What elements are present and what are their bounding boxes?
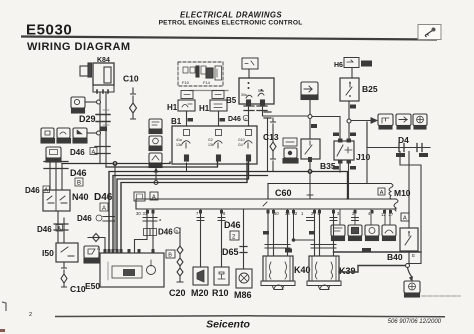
svg-text:B40: B40 xyxy=(387,252,403,262)
svg-text:J10: J10 xyxy=(356,152,370,162)
wire H6 to B25 xyxy=(351,68,353,78)
svg-text:A: A xyxy=(152,195,156,201)
svg-text:G2: G2 xyxy=(208,138,213,142)
icon box s2 xyxy=(348,225,362,241)
icon boxes near C13 xyxy=(283,138,298,163)
junction dot k xyxy=(292,238,296,242)
bus A xyxy=(62,162,170,164)
svg-text:C20: C20 xyxy=(169,288,186,298)
wire B25 down xyxy=(348,101,350,121)
icon box beside I50 xyxy=(84,246,99,263)
svg-text:D46: D46 xyxy=(25,186,40,195)
footer xyxy=(0,302,445,332)
svg-text:30a: 30a xyxy=(241,93,247,97)
header xyxy=(21,11,441,54)
wire from arrow bus down xyxy=(366,122,368,148)
connector C20 xyxy=(169,228,186,298)
connector bars over N40 wires xyxy=(44,162,68,169)
svg-text:D46: D46 xyxy=(37,225,52,234)
svg-text:2: 2 xyxy=(232,234,236,240)
connector ticks D46c xyxy=(264,112,271,118)
wire B5 pin30 down xyxy=(248,105,250,126)
svg-text:I50: I50 xyxy=(42,248,54,258)
fuse box (dashed) xyxy=(178,62,228,91)
socket boxes on wires xyxy=(144,229,151,236)
wire J10 pin right down to strip xyxy=(348,163,350,199)
diamond wire to E50 pin1 xyxy=(88,238,105,253)
key switch B5 xyxy=(239,78,274,105)
pin squares under strip xyxy=(146,210,392,214)
wire K84 pin2 down to bus xyxy=(105,93,107,167)
bus D xyxy=(113,176,268,253)
wire box to B5 xyxy=(248,69,250,78)
wire D46c down to bus xyxy=(267,118,269,172)
node junction 2 xyxy=(97,131,101,135)
svg-text:E: E xyxy=(412,253,415,258)
wire J10 pin left down xyxy=(339,163,341,172)
connector bars below B5 xyxy=(244,106,267,111)
small box above B5 xyxy=(242,58,258,69)
svg-text:41a: 41a xyxy=(176,138,182,142)
label D65 xyxy=(222,247,247,258)
horn M20 xyxy=(191,267,209,298)
bus C xyxy=(109,172,348,253)
icon box s3 xyxy=(365,225,379,241)
connector C10 xyxy=(123,74,139,120)
svg-text:13b: 13b xyxy=(208,143,214,147)
connector C10 below I50 xyxy=(61,262,86,294)
label D46 A mid xyxy=(94,192,113,212)
svg-text:F14: F14 xyxy=(203,80,211,85)
wire to M86 xyxy=(243,209,245,269)
svg-text:2: 2 xyxy=(29,312,32,318)
node on bus A xyxy=(113,162,117,166)
B1 pin1 stub xyxy=(186,163,188,172)
coil K39 xyxy=(307,256,356,290)
wire strip pins to E50 right pins xyxy=(135,209,154,252)
E50 top pins xyxy=(97,246,155,253)
svg-text:506 907/06 12/2000: 506 907/06 12/2000 xyxy=(388,319,442,325)
coil K40 xyxy=(261,256,311,290)
svg-text:M20: M20 xyxy=(191,288,209,298)
ignition switch K84 xyxy=(80,57,114,93)
pin tag on K40 left xyxy=(263,231,269,235)
loom strip xyxy=(136,199,398,211)
pin tag Me xyxy=(285,249,292,253)
wire from sensor to node xyxy=(85,101,97,103)
wire icon to junction xyxy=(309,100,311,139)
connector H1 (left) xyxy=(167,91,195,113)
wire B35 bus to strip xyxy=(309,172,311,200)
svg-text:7: 7 xyxy=(196,211,199,216)
svg-text:D46: D46 xyxy=(158,228,173,237)
wire frame right: down from D4 xyxy=(400,152,421,264)
svg-text:D46: D46 xyxy=(224,220,241,230)
wire to R10 xyxy=(221,209,223,267)
node on bus F xyxy=(154,181,158,185)
svg-text:1: 1 xyxy=(301,211,304,216)
icon box: injector arrow xyxy=(73,128,87,143)
connector bars on K84 wires xyxy=(95,147,110,154)
connector ticks below strip xyxy=(197,218,359,221)
label D46 o with connector over E50 bundle xyxy=(77,214,114,223)
icon box row: fuel cutoff xyxy=(41,128,55,143)
svg-text:Seicento: Seicento xyxy=(206,319,250,331)
wires strip to icons xyxy=(340,209,390,225)
svg-text:ELECTRICAL DRAWINGS: ELECTRICAL DRAWINGS xyxy=(180,11,282,20)
svg-text:6: 6 xyxy=(223,211,226,216)
wire N40 to I50 xyxy=(58,211,64,243)
svg-text:B: B xyxy=(168,253,172,259)
strip pin numbers xyxy=(136,211,394,217)
svg-text:K40: K40 xyxy=(294,265,311,275)
svg-text:G4: G4 xyxy=(238,143,243,147)
svg-text:30: 30 xyxy=(136,211,141,216)
wire junction to J10 pin xyxy=(348,123,350,139)
svg-text:B25: B25 xyxy=(362,84,378,94)
svg-text:N40: N40 xyxy=(72,192,89,202)
J10 pin tags xyxy=(333,133,339,137)
icon box s4 xyxy=(382,225,396,241)
switch B40 xyxy=(387,228,418,262)
junction dot B40 xyxy=(406,264,410,268)
svg-text:13a: 13a xyxy=(176,143,182,147)
svg-text:K39: K39 xyxy=(339,266,356,276)
wire B40 to junction xyxy=(408,251,410,264)
svg-text:F10: F10 xyxy=(182,80,190,85)
svg-text:C10: C10 xyxy=(123,74,139,84)
wire B5 pin50 right xyxy=(263,105,311,116)
arrow to icon boxes xyxy=(351,120,371,122)
wire B35 down to bus xyxy=(309,159,311,172)
svg-text:A: A xyxy=(380,190,384,196)
svg-text:R10: R10 xyxy=(212,288,229,298)
switch I50 xyxy=(42,243,78,262)
svg-text:PETROL ENGINES ELECTRONIC CONT: PETROL ENGINES ELECTRONIC CONTROL xyxy=(159,20,303,27)
motor M86 xyxy=(234,269,252,300)
wire from icon stack to bus with up arrow xyxy=(155,168,157,182)
icon box t2 xyxy=(396,114,411,129)
wire junction right to J10 pin xyxy=(312,117,340,140)
bus A drop to E50 xyxy=(114,164,116,250)
node junction B25 xyxy=(347,119,351,123)
svg-text:D46: D46 xyxy=(77,214,92,223)
wire to B40 xyxy=(408,152,410,229)
ground icon box xyxy=(404,281,460,297)
svg-text:G10: G10 xyxy=(238,138,245,142)
svg-text:D46: D46 xyxy=(70,168,87,178)
label D46 c xyxy=(228,115,249,123)
icon box above B35 xyxy=(301,82,318,100)
node junction on K84 wire xyxy=(97,100,101,104)
svg-text:M10: M10 xyxy=(394,188,411,198)
bus B xyxy=(106,162,218,167)
sensor icon box (lambda) xyxy=(71,97,85,113)
svg-text:50a: 50a xyxy=(258,89,264,93)
vertical wire J10 area down xyxy=(366,122,368,183)
pin label 1a xyxy=(311,124,317,128)
brake switch B25 xyxy=(340,78,378,101)
wire to M20 xyxy=(200,209,202,267)
label D46 B xyxy=(70,168,87,187)
bus F xyxy=(121,163,247,252)
node junction B35 xyxy=(308,115,312,119)
connector bars above I50 xyxy=(54,224,68,230)
wire H1a to B1 xyxy=(186,111,188,126)
C60 M10 harness box xyxy=(268,184,411,200)
connector C13 xyxy=(263,118,279,172)
relay N40 xyxy=(43,190,89,211)
connector H1 (right) xyxy=(199,91,227,114)
svg-text:A: A xyxy=(97,246,100,251)
arrow to ground icon xyxy=(408,268,412,277)
node on bus C xyxy=(308,170,312,174)
svg-text:B: B xyxy=(77,181,81,187)
connector bars K39 bundle xyxy=(311,245,336,249)
svg-text:B1: B1 xyxy=(171,117,182,126)
svg-text:A: A xyxy=(92,150,96,156)
svg-text:D46: D46 xyxy=(70,148,85,157)
wire K84 pin1 down to bus xyxy=(99,93,101,164)
boxed B at E50 right xyxy=(166,250,175,258)
wire icon row to node xyxy=(87,132,97,134)
svg-text:WIRING DIAGRAM: WIRING DIAGRAM xyxy=(27,41,131,53)
pin tag on K84 wire xyxy=(101,127,107,131)
svg-text:E50: E50 xyxy=(85,281,100,291)
svg-text:H1: H1 xyxy=(199,104,210,113)
svg-text:M86: M86 xyxy=(234,290,252,300)
svg-text:a: a xyxy=(159,217,162,222)
relay J10 xyxy=(334,139,370,164)
label D46 at left edge xyxy=(25,186,50,195)
connector D4 xyxy=(367,135,430,157)
svg-text:D65: D65 xyxy=(222,247,239,257)
icon box: rpm xyxy=(57,128,71,143)
svg-text:D46: D46 xyxy=(94,192,113,203)
svg-text:A: A xyxy=(102,206,106,212)
wire H1b to B1 xyxy=(218,111,220,126)
switch B35 xyxy=(301,139,336,171)
connector H6 xyxy=(334,58,372,70)
lighter R10 xyxy=(212,267,229,298)
label D46 2 xyxy=(224,220,241,240)
svg-text:H1: H1 xyxy=(167,103,178,112)
connector bars K40 bundle xyxy=(265,245,290,249)
connector bars on strip wires xyxy=(143,218,157,222)
icon box s1 xyxy=(331,225,345,241)
svg-text:C13: C13 xyxy=(263,132,279,142)
wires into K40 xyxy=(268,209,288,256)
stacked icon boxes left of B1 xyxy=(149,119,162,168)
wire K39 body right xyxy=(339,266,407,273)
label D46 b on strip xyxy=(158,228,180,237)
instrument panel E50 xyxy=(85,253,164,291)
svg-text:B5: B5 xyxy=(226,96,237,105)
svg-text:C10: C10 xyxy=(70,284,86,294)
ECU B1 xyxy=(172,126,257,164)
label D46 A lower xyxy=(37,225,63,235)
label B boxed near E50 xyxy=(134,192,158,201)
svg-text:C60: C60 xyxy=(275,188,292,198)
icon box t3 xyxy=(413,114,427,129)
label D46 A xyxy=(70,148,97,158)
wires into K39 xyxy=(315,209,334,256)
connector D29 xyxy=(79,110,110,125)
svg-text:H6: H6 xyxy=(334,62,343,69)
svg-text:D29: D29 xyxy=(79,114,96,124)
pin tag on K39 left xyxy=(309,231,315,235)
bus E xyxy=(117,162,249,252)
icon box: ecu tag xyxy=(46,147,61,162)
icon box t1 xyxy=(378,114,393,129)
wires into N40 xyxy=(50,158,62,190)
svg-text:D46: D46 xyxy=(228,116,241,123)
wire K39 right to frame xyxy=(334,251,422,253)
boxed A right of strip pins xyxy=(401,213,409,221)
svg-text:A: A xyxy=(403,216,407,222)
